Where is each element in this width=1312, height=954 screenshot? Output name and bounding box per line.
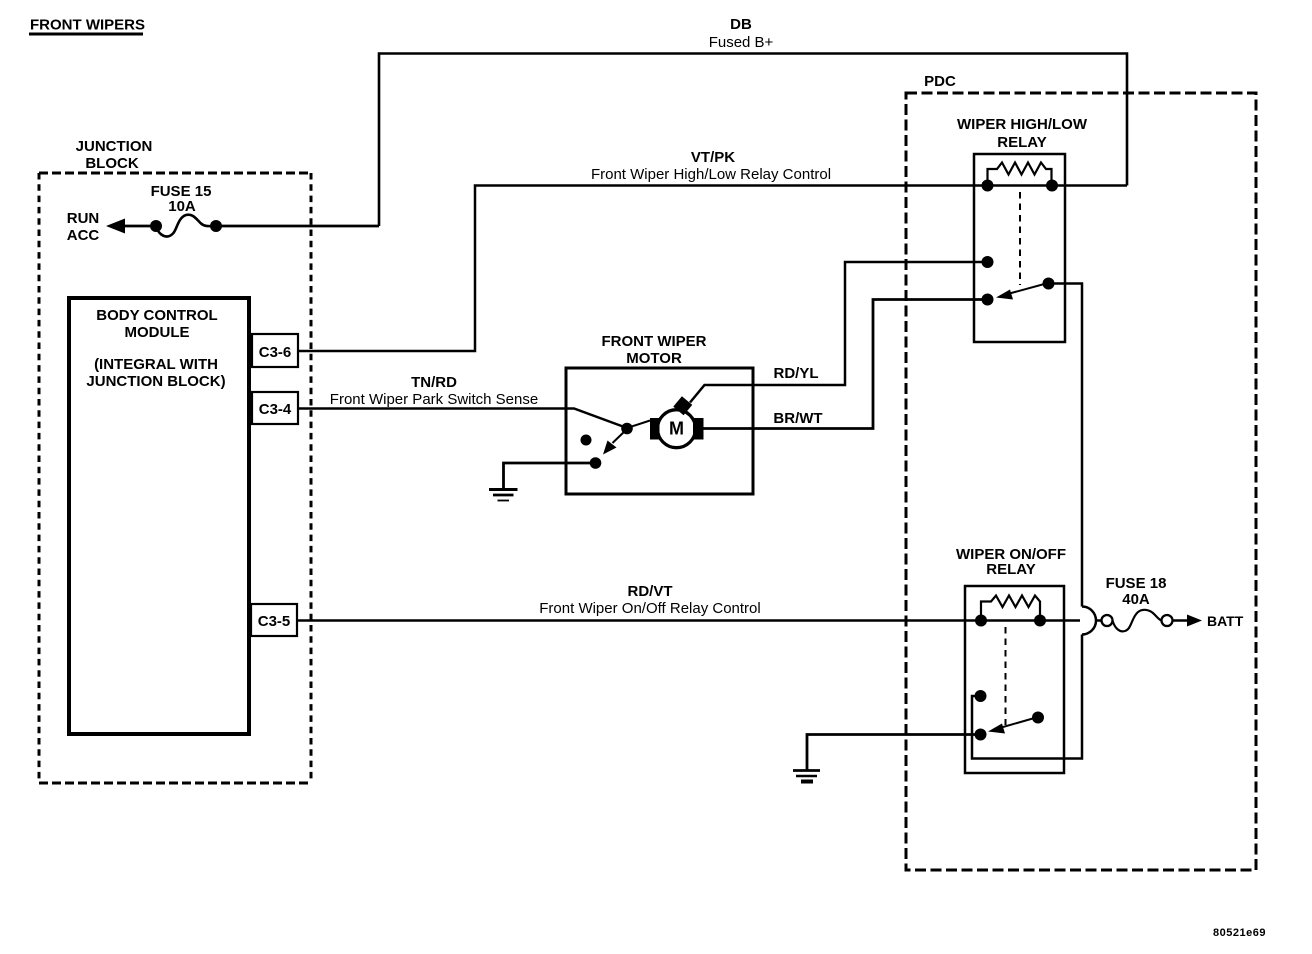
relay K1 switch bbox=[982, 256, 1055, 306]
front wiper motor label bbox=[602, 333, 707, 367]
fuse F15 element bbox=[150, 215, 222, 237]
svg-text:C3-4: C3-4 bbox=[259, 401, 292, 418]
svg-text:M: M bbox=[669, 419, 684, 439]
svg-text:WIPER HIGH/LOW: WIPER HIGH/LOW bbox=[957, 116, 1088, 133]
relay K2 switch bbox=[975, 690, 1045, 741]
net label TN/RD bbox=[330, 374, 538, 408]
svg-text:BATT: BATT bbox=[1207, 613, 1244, 629]
svg-text:40A: 40A bbox=[1122, 591, 1150, 608]
svg-text:DB: DB bbox=[730, 16, 752, 33]
svg-text:(INTEGRAL WITH: (INTEGRAL WITH bbox=[94, 356, 218, 373]
body control module label bbox=[86, 307, 225, 390]
relay K1 wiper high/low box bbox=[974, 154, 1065, 342]
svg-text:MOTOR: MOTOR bbox=[626, 350, 682, 367]
svg-text:C3-6: C3-6 bbox=[259, 344, 292, 361]
pin C3-5 bbox=[251, 604, 297, 636]
wire fuse to top feed bbox=[216, 225, 379, 228]
relay K2 coil bbox=[975, 596, 1046, 627]
motor M1 box bbox=[566, 368, 753, 494]
svg-text:Front Wiper Park Switch Sense: Front Wiper Park Switch Sense bbox=[330, 391, 538, 408]
wire BR/WT relay to motor bbox=[703, 300, 987, 429]
svg-text:VT/PK: VT/PK bbox=[691, 149, 735, 166]
wire RD/VT C3-5 to on/off relay and fuse 18 bbox=[297, 619, 1102, 622]
wire hop over batt feed bbox=[1082, 607, 1096, 635]
svg-text:RELAY: RELAY bbox=[986, 561, 1035, 578]
wire fuse 18 to BATT bbox=[1173, 615, 1203, 627]
fuse F18 label bbox=[1106, 575, 1167, 608]
wiper on/off relay label bbox=[956, 546, 1066, 578]
relay K2 wiper on/off box bbox=[965, 586, 1064, 773]
svg-text:TN/RD: TN/RD bbox=[411, 374, 457, 391]
junction block label bbox=[76, 138, 153, 172]
relay K1 armature dashed link bbox=[1019, 192, 1021, 285]
net label RD/VT bbox=[539, 583, 760, 617]
svg-text:80521e69: 80521e69 bbox=[1213, 927, 1266, 939]
junction block dashed box bbox=[39, 173, 311, 783]
svg-text:JUNCTION BLOCK): JUNCTION BLOCK) bbox=[86, 373, 225, 390]
ground G1 motor bbox=[489, 490, 518, 501]
wire on/off relay to ground bbox=[807, 735, 980, 771]
svg-text:ACC: ACC bbox=[67, 227, 100, 244]
wire park switch to ground bbox=[504, 463, 596, 489]
wire run/acc arrow bbox=[106, 219, 156, 234]
motor M1 bbox=[650, 396, 704, 447]
wire RD/YL relay to motor bbox=[690, 262, 987, 403]
PDC dashed box bbox=[906, 93, 1256, 870]
svg-text:BR/WT: BR/WT bbox=[773, 410, 822, 427]
wire high/low common to on/off relay bbox=[972, 284, 1082, 759]
pin C3-4 bbox=[252, 392, 298, 424]
svg-text:PDC: PDC bbox=[924, 73, 956, 90]
svg-text:BLOCK: BLOCK bbox=[85, 155, 138, 172]
wiper high/low relay label bbox=[957, 116, 1088, 151]
svg-text:RD/YL: RD/YL bbox=[774, 365, 819, 382]
node RUN ACC bbox=[67, 210, 100, 244]
body control module box bbox=[69, 298, 249, 734]
svg-text:FUSE 18: FUSE 18 bbox=[1106, 575, 1167, 592]
svg-text:10A: 10A bbox=[168, 198, 196, 215]
svg-text:C3-5: C3-5 bbox=[258, 613, 291, 630]
wire fused B+ top feed bbox=[379, 54, 1127, 227]
relay K2 armature dashed link bbox=[1005, 627, 1007, 725]
net label DB Fused B+ bbox=[709, 16, 774, 51]
wire TN/RD C3-4 to park switch bbox=[298, 409, 627, 429]
svg-text:MODULE: MODULE bbox=[125, 324, 190, 341]
title FRONT WIPERS bbox=[29, 17, 145, 36]
net label VT/PK bbox=[591, 149, 831, 183]
pin C3-6 bbox=[252, 334, 298, 367]
wire VT/PK C3-6 to high/low relay coil bbox=[298, 186, 1127, 352]
ground G2 relay bbox=[793, 771, 820, 782]
relay K1 coil bbox=[982, 163, 1059, 192]
svg-text:Front Wiper High/Low Relay Con: Front Wiper High/Low Relay Control bbox=[591, 166, 831, 183]
fuse F18 element bbox=[1102, 610, 1173, 632]
svg-text:Fused B+: Fused B+ bbox=[709, 34, 774, 51]
svg-text:FRONT WIPER: FRONT WIPER bbox=[602, 333, 707, 350]
svg-text:RD/VT: RD/VT bbox=[628, 583, 673, 600]
svg-text:JUNCTION: JUNCTION bbox=[76, 138, 153, 155]
park switch bbox=[581, 421, 651, 469]
svg-text:BODY CONTROL: BODY CONTROL bbox=[96, 307, 217, 324]
svg-text:RUN: RUN bbox=[67, 210, 100, 227]
svg-text:FRONT WIPERS: FRONT WIPERS bbox=[30, 17, 145, 34]
svg-text:RELAY: RELAY bbox=[997, 134, 1046, 151]
svg-text:Front Wiper On/Off Relay Contr: Front Wiper On/Off Relay Control bbox=[539, 600, 760, 617]
fuse F15 label bbox=[151, 183, 212, 215]
